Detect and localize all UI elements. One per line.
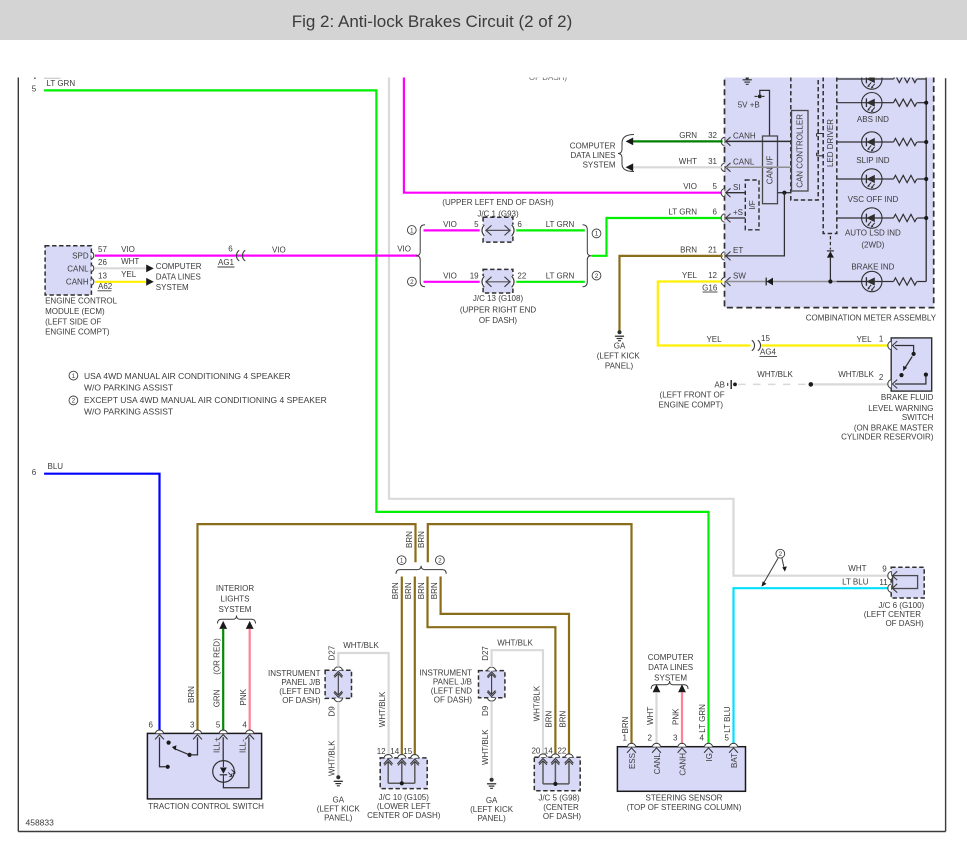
svg-text:GA: GA [333,796,345,805]
svg-text:2: 2 [438,558,442,565]
computer data lines label (steering) [648,653,694,689]
J/C 10 caption [367,793,441,820]
wire LT GRN branch 1 from J/C 1 [516,220,585,230]
svg-text:BRN: BRN [558,710,567,727]
svg-text:6: 6 [149,720,154,729]
CAN controller to LED driver links [817,134,824,156]
svg-text:TRACTION CONTROL SWITCH: TRACTION CONTROL SWITCH [148,802,264,811]
svg-text:26: 26 [98,258,107,267]
combination meter caption [806,313,937,322]
svg-text:PNK: PNK [239,688,248,705]
wire BRN steering ESS to option brace [417,524,631,743]
svg-text:6: 6 [228,245,233,254]
svg-text:AG1: AG1 [218,258,235,267]
wire CANL internal [726,166,791,168]
interior lights system label [216,584,256,624]
svg-text:MODULE (ECM): MODULE (ECM) [45,307,105,316]
traction control switch S1 [147,720,261,799]
wire VIO (clipped top) to meter SI pin [404,70,723,193]
wire LT GRN label at steering IG [698,704,707,733]
svg-text:OF DASH): OF DASH) [479,316,518,325]
ground GA (left kick panel, lower left) [317,775,361,822]
svg-text:(LEFT SIDE OF: (LEFT SIDE OF [45,317,101,326]
wire WHT from steering CANL [646,692,657,743]
svg-text:VIO: VIO [272,245,286,254]
svg-text:14: 14 [390,747,399,756]
svg-text:458833: 458833 [26,818,55,828]
svg-text:LEVEL WARNING: LEVEL WARNING [868,404,933,413]
svg-text:SYSTEM: SYSTEM [156,283,189,292]
svg-text:31: 31 [708,157,717,166]
svg-text:ENGINE COMPT): ENGINE COMPT) [45,328,110,337]
svg-text:BAT: BAT [730,753,739,768]
instrument panel J/B 1 [325,645,351,716]
wire CAN I/F to CAN controller + ET [726,191,791,256]
svg-text:BRN: BRN [545,710,554,727]
svg-text:BRN: BRN [391,582,400,599]
svg-text:15: 15 [403,747,412,756]
arrow to computer data lines (PNK) [678,684,686,692]
svg-text:12: 12 [377,747,386,756]
5V +B supply [738,90,770,136]
svg-text:PANEL J/B: PANEL J/B [433,678,472,687]
node AB [714,380,737,390]
resistor R3 [882,138,926,145]
svg-text:DATA LINES: DATA LINES [156,273,201,282]
traction control switch caption [148,802,264,811]
svg-text:1: 1 [879,334,884,343]
wire SI internal [726,192,745,194]
wire BLU from left pin 6 to TCS pin 6 [44,474,159,730]
svg-text:(LEFT END: (LEFT END [431,686,472,695]
wire LT BLU label at steering BAT [723,706,732,733]
svg-text:J/C 5 (G98): J/C 5 (G98) [538,794,580,803]
svg-text:3: 3 [673,734,678,743]
svg-text:YEL: YEL [682,271,698,280]
svg-text:GRN: GRN [679,131,697,140]
wire WHT/BLK J/B1 D9 to ground GA [328,702,339,776]
ground GA (left kick panel, lower center) [470,778,514,823]
wire LT BLU from steering BAT to J/C 6 pin 11 [734,588,888,743]
svg-text:EXCEPT USA 4WD MANUAL AIR COND: EXCEPT USA 4WD MANUAL AIR CONDITIONING 4… [84,395,327,405]
wire VIO branch 2 to J/C 13 [424,271,480,281]
option 2 pointer at J/C 6 [762,549,787,586]
svg-text:11: 11 [879,578,888,587]
combination meter assembly body [725,70,934,308]
I/F dashed box [745,180,759,230]
svg-text:BLU: BLU [48,462,64,471]
LED indicator (top clipped) [862,69,882,89]
LED DRIVER dashed box [823,70,837,234]
resistor R2 [882,99,926,106]
title bar [0,0,967,40]
svg-text:INSTRUMENT: INSTRUMENT [420,669,473,678]
svg-text:WHT/BLK: WHT/BLK [378,691,387,727]
wire WHT/BLK J/B1 D27 to J/C 10 pin 12 [338,641,388,754]
svg-text:CENTER OF DASH): CENTER OF DASH) [367,811,441,820]
svg-text:5V +B: 5V +B [738,101,760,110]
wire YEL from meter SW pin to AG4 [658,282,751,346]
svg-text:ABS IND: ABS IND [857,115,889,124]
svg-text:(OR RED): (OR RED) [213,638,222,675]
svg-text:1: 1 [72,373,76,380]
svg-text:13: 13 [98,272,107,281]
wire VIO from ECM SPD pin 57 [95,245,418,256]
svg-text:DATA LINES: DATA LINES [570,151,615,160]
resistor R4 [882,175,926,182]
svg-text:1: 1 [400,558,404,565]
svg-text:2: 2 [879,373,884,382]
svg-text:G16: G16 [702,283,718,292]
wire GRN from interior lights to TCS pin 5 [213,629,224,730]
svg-text:VIO: VIO [121,245,135,254]
node 5 LT GRN (top left) [32,78,76,93]
svg-text:(TOP OF STEERING COLUMN): (TOP OF STEERING COLUMN) [627,803,742,812]
LED ABS IND [857,93,889,125]
svg-text:YEL: YEL [121,270,137,279]
svg-text:SPD: SPD [72,251,89,260]
svg-text:SW: SW [733,272,746,281]
svg-text:AUTO LSD IND: AUTO LSD IND [845,229,901,238]
svg-text:14: 14 [544,746,553,755]
svg-text:J/C 10 (G105): J/C 10 (G105) [379,793,430,802]
brake fluid level warning switch S2 [888,338,932,391]
svg-text:(LEFT KICK: (LEFT KICK [470,805,514,814]
svg-text:BRN: BRN [680,245,697,254]
svg-text:(ON BRAKE MASTER: (ON BRAKE MASTER [854,423,934,432]
wire PNK from interior lights to TCS pin 4 [239,629,250,730]
ground (meter internal) [743,70,752,84]
svg-text:4: 4 [242,720,247,729]
junction connector J/C 10 (G105) [377,747,428,789]
svg-text:SWITCH: SWITCH [902,413,934,422]
svg-text:AB: AB [714,381,725,390]
svg-text:SYSTEM: SYSTEM [654,673,687,682]
svg-text:5: 5 [32,85,37,94]
LED driver output to brake LED row [827,236,834,284]
resistor R1 (top clipped) [882,75,926,82]
svg-text:ILL-: ILL- [238,739,247,753]
wire WHT from ECM CANL pin 26 [95,257,146,268]
svg-text:2: 2 [779,551,783,558]
computer data lines arrows (meter) [570,135,634,172]
wire SW internal [726,281,861,283]
svg-text:D27: D27 [328,645,337,660]
svg-text:COMPUTER: COMPUTER [648,653,694,662]
svg-text:VIO: VIO [683,182,697,191]
svg-text:19: 19 [470,271,479,280]
svg-text:5: 5 [724,734,729,743]
svg-text:LT GRN: LT GRN [546,220,575,229]
svg-text:OF DASH): OF DASH) [434,696,473,705]
junction connector J/C 6 (G100) [842,564,924,598]
LED VSC OFF IND [848,169,899,204]
computer data lines arrows (ECM) [146,262,202,292]
svg-text:Fig 2: Anti-lock Brakes Circui: Fig 2: Anti-lock Brakes Circuit (2 of 2) [292,12,573,31]
instrument panel J/B 2 [479,646,505,716]
resistor R5 [882,214,926,221]
svg-text:WHT/BLK: WHT/BLK [328,740,337,776]
svg-text:6: 6 [713,208,718,217]
diode on SW line [766,278,773,286]
svg-text:CANL: CANL [733,158,755,167]
svg-text:J/C 13 (G108): J/C 13 (G108) [473,294,524,303]
svg-text:22: 22 [557,746,566,755]
svg-text:2: 2 [595,273,599,280]
option brace BRN [396,556,446,574]
junction dot on WHT/BLK [809,382,814,387]
svg-text:COMBINATION METER ASSEMBLY: COMBINATION METER ASSEMBLY [806,313,937,322]
svg-text:57: 57 [98,245,107,254]
svg-text:+S: +S [733,208,743,217]
svg-text:WHT/BLK: WHT/BLK [343,641,379,650]
J/C 5 caption [538,794,581,821]
svg-text:LED DRIVER: LED DRIVER [826,119,835,167]
svg-text:PANEL): PANEL) [605,361,634,370]
svg-text:(LOWER LEFT: (LOWER LEFT [377,802,431,811]
svg-text:(LEFT FRONT OF: (LEFT FRONT OF [660,390,725,399]
svg-text:LT GRN: LT GRN [698,704,707,733]
svg-text:COMPUTER: COMPUTER [156,262,202,271]
svg-text:BRN: BRN [417,531,426,548]
svg-text:(UPPER LEFT END OF DASH): (UPPER LEFT END OF DASH) [442,198,554,207]
svg-text:OF DASH): OF DASH) [885,619,924,628]
svg-text:SI: SI [733,183,741,192]
brace option merge (LT GRN) [583,225,601,287]
svg-text:BRAKE IND: BRAKE IND [851,263,894,272]
svg-text:VIO: VIO [443,220,457,229]
svg-text:2: 2 [647,734,652,743]
svg-text:CAN CONTROLLER: CAN CONTROLLER [795,114,804,188]
wire VIO branch 1 to J/C 1 [424,220,480,230]
svg-text:CANH: CANH [733,132,756,141]
wire YEL from AG4 to brake fluid switch pin 1 [761,334,888,345]
svg-text:4: 4 [699,734,704,743]
svg-text:1: 1 [595,231,599,238]
resistor R6 [882,278,926,285]
wire LT GRN from pin 5 to steering sensor IG [44,90,708,743]
svg-text:(CENTER: (CENTER [543,803,579,812]
svg-text:OF DASH): OF DASH) [282,696,321,705]
wire WHT to CANL pin 31 [633,166,723,168]
svg-text:(LEFT KICK: (LEFT KICK [317,805,361,814]
svg-text:OF DASH): OF DASH) [543,812,582,821]
ECM caption [45,297,118,337]
svg-text:6: 6 [32,468,37,477]
svg-text:SYSTEM: SYSTEM [219,605,252,614]
svg-text:21: 21 [708,245,717,254]
svg-text:(UPPER RIGHT END: (UPPER RIGHT END [460,306,537,315]
svg-text:BRAKE FLUID: BRAKE FLUID [881,393,934,402]
svg-text:2: 2 [72,398,76,405]
svg-text:PANEL): PANEL) [324,814,353,823]
svg-text:WHT/BLK: WHT/BLK [757,370,793,379]
svg-text:LIGHTS: LIGHTS [221,595,250,604]
svg-text:ILL+: ILL+ [213,737,222,753]
LED driver row wires [837,79,862,282]
svg-text:WHT: WHT [679,157,697,166]
clipped label OF DASH (top) [529,73,568,82]
svg-text:1: 1 [622,734,627,743]
CAN CONTROLLER block [792,111,809,192]
svg-text:IG: IG [705,753,714,761]
meter resistor bus [924,70,928,282]
svg-text:INTERIOR: INTERIOR [216,584,254,593]
wire WHT/BLK dashed from AB [738,370,809,384]
wire GRN to CANH pin 32 [633,140,723,142]
svg-text:BRN: BRN [405,531,414,548]
wire BRN to J/C 10 pin 15 [404,577,415,755]
svg-text:BRN: BRN [430,582,439,599]
svg-text:WHT: WHT [848,564,866,573]
wire PNK from steering CANH [671,692,682,743]
svg-text:SLIP IND: SLIP IND [856,156,889,165]
svg-text:CANH: CANH [678,753,687,776]
note 2 [69,395,327,416]
wire WHT (clipped top) to J/C 6 pin 9 [389,70,888,576]
figure number 458833 [26,818,55,828]
svg-text:USA 4WD MANUAL AIR CONDITIONIN: USA 4WD MANUAL AIR CONDITIONING 4 SPEAKE… [84,371,291,381]
svg-text:STEERING SENSOR: STEERING SENSOR [646,794,723,803]
svg-text:D27: D27 [481,646,490,661]
svg-text:LT GRN: LT GRN [47,79,76,88]
svg-text:D9: D9 [328,706,337,717]
svg-text:CYLINDER RESERVOIR): CYLINDER RESERVOIR) [841,433,934,442]
svg-text:5: 5 [474,220,479,229]
svg-text:BRN: BRN [621,716,630,733]
wire BRN to J/C 5 pin 22 [430,577,569,754]
svg-text:PANEL): PANEL) [477,814,506,823]
svg-text:1: 1 [410,227,414,234]
svg-text:6: 6 [517,220,522,229]
note 1 [69,371,291,393]
svg-text:LT BLU: LT BLU [842,578,869,587]
svg-text:PNK: PNK [671,708,680,725]
svg-text:5: 5 [713,182,718,191]
svg-text:WHT/BLK: WHT/BLK [532,685,541,721]
svg-text:CANL: CANL [67,264,89,273]
J/C 6 caption [864,601,925,628]
instrument panel J/B 2 caption [420,669,473,705]
LED BRAKE IND [851,263,894,292]
svg-text:CANH: CANH [66,277,89,286]
LED AUTO LSD IND [845,208,901,250]
svg-text:ESS: ESS [628,753,637,769]
svg-text:J/C 6 (G100): J/C 6 (G100) [878,601,924,610]
steering sensor [617,734,745,792]
svg-text:W/O PARKING ASSIST: W/O PARKING ASSIST [84,406,173,416]
svg-text:VSC OFF IND: VSC OFF IND [848,195,899,204]
engine control module (ECM) U1 [45,245,113,295]
svg-text:VIO: VIO [443,271,457,280]
meter pins CANH CANL SI +S ET SW [668,131,756,293]
svg-text:GRN: GRN [213,689,222,707]
svg-text:WHT: WHT [646,707,655,725]
svg-text:3: 3 [190,720,195,729]
wire BRN TCS pin 3 to option brace [187,524,416,730]
svg-text:(2WD): (2WD) [861,241,884,250]
svg-text:A62: A62 [98,282,113,291]
svg-text:BRN: BRN [187,686,196,703]
wire WHT/BLK J/B2 D9 to ground GA [481,701,492,778]
svg-text:(LEFT CENTER: (LEFT CENTER [864,610,921,619]
svg-text:BRN: BRN [404,582,413,599]
CAN I/F block [763,136,778,204]
arrow to interior lights (GRN) [219,621,227,629]
instrument panel J/B 1 caption [268,669,321,705]
svg-text:OF DASH): OF DASH) [529,73,568,82]
svg-text:20: 20 [531,746,540,755]
junction connector J/C 1 (G93) [442,198,554,242]
svg-text:PANEL J/B: PANEL J/B [281,678,320,687]
svg-text:9: 9 [882,564,887,573]
wire LT GRN from merge to meter +S pin [592,218,723,256]
svg-text:LT BLU: LT BLU [723,706,732,733]
svg-text:ENGINE CONTROL: ENGINE CONTROL [45,297,118,306]
brake fluid switch caption [841,393,934,441]
svg-text:CANL: CANL [653,752,662,774]
svg-text:LT GRN: LT GRN [668,208,697,217]
svg-text:12: 12 [708,271,717,280]
wire WHT/BLK to brake fluid switch pin 2 [813,370,888,384]
svg-text:BRN: BRN [417,582,426,599]
wire CANH internal [726,140,791,142]
svg-text:ET: ET [733,246,743,255]
svg-text:I/F: I/F [748,200,757,209]
wire +S internal [726,217,745,219]
svg-text:GA: GA [614,342,626,351]
wire WHT/BLK J/B2 D27 to J/C 5 pin 20 [492,638,543,754]
svg-text:YEL: YEL [706,335,722,344]
svg-text:WHT: WHT [121,257,139,266]
svg-text:(LEFT END: (LEFT END [279,687,320,696]
wire BRN from meter ET pin to ground GA [620,256,723,331]
svg-text:DATA LINES: DATA LINES [648,663,693,672]
node 6 BLU (left) [32,462,64,477]
arrow to computer data lines (WHT) [653,684,661,692]
svg-text:INSTRUMENT: INSTRUMENT [268,669,321,678]
svg-text:22: 22 [517,271,526,280]
arrow to interior lights (PNK) [246,621,254,629]
connector AG4 (15) [752,334,777,356]
brace option split (VIO) [407,225,425,287]
wire LT GRN branch 2 from J/C 13 [516,271,585,281]
wire BRN to J/C 5 pin 14 [417,577,556,754]
svg-text:COMPUTER: COMPUTER [570,142,616,151]
svg-text:WHT/BLK: WHT/BLK [497,638,533,647]
wire BRN to J/C 10 pin 14 [391,577,402,755]
svg-text:WHT/BLK: WHT/BLK [838,370,874,379]
AB caption [659,390,725,409]
ground GA (left kick panel, center) [597,330,641,370]
svg-text:15: 15 [761,334,770,343]
svg-text:32: 32 [708,131,717,140]
CAN CONTROLLER dashed box [791,70,818,200]
wire YEL from ECM CANH pin 13 [95,270,146,282]
junction connector J/C 13 (G108) [460,269,537,325]
svg-text:CAN I/F: CAN I/F [766,156,775,185]
svg-text:ENGINE COMPT): ENGINE COMPT) [659,401,724,410]
junction connector J/C 5 (G98) [531,746,580,790]
steering sensor caption [627,794,742,812]
svg-text:GA: GA [486,796,498,805]
svg-text:YEL: YEL [856,335,872,344]
svg-text:VIO: VIO [397,245,411,254]
LED SLIP IND [856,132,889,165]
svg-text:2: 2 [410,279,414,286]
svg-text:W/O PARKING ASSIST: W/O PARKING ASSIST [84,382,173,392]
svg-text:5: 5 [216,720,221,729]
